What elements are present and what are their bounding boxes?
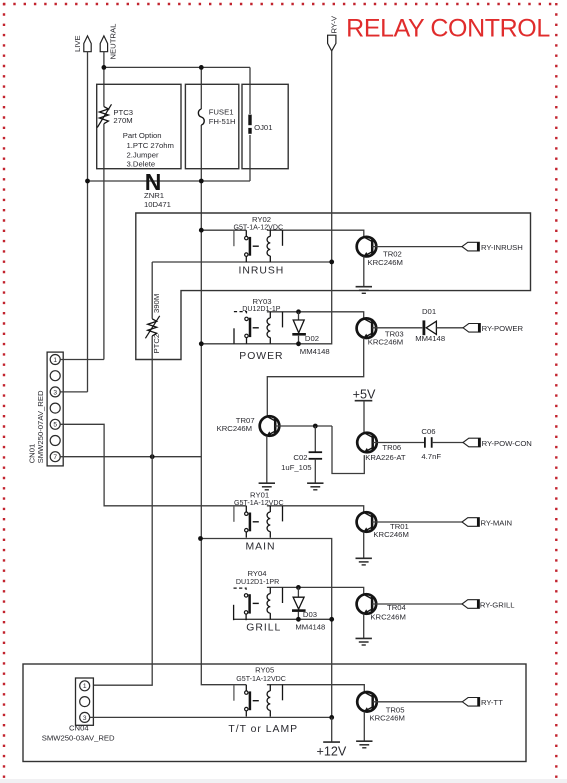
wire TR03 base to D01 [372, 327, 422, 329]
svg-text:NEUTRAL: NEUTRAL [109, 23, 118, 60]
transistor TR01 [357, 512, 409, 539]
wire TR06 base to C06 [373, 442, 425, 444]
relay RY05 contact [234, 685, 250, 717]
wire TR01 base to tag [372, 521, 462, 523]
wire RY01 coil top to TR01 [267, 506, 364, 513]
wire CN01 pin5 to MAIN [60, 424, 246, 506]
node TR07/C02 [313, 424, 318, 429]
svg-text:POWER: POWER [239, 351, 283, 362]
ground TR02 [356, 287, 372, 294]
svg-text:PTC2: PTC2 [152, 334, 161, 354]
node pin7/PTC2 [150, 454, 155, 459]
ground TR04 [356, 638, 372, 645]
wire PTC2 drop (INRUSH return to CN04 pin1) [90, 262, 153, 685]
RY-V input arrow [328, 15, 339, 51]
svg-text:RY04: RY04 [247, 569, 267, 578]
output tag RY-POWER [463, 324, 523, 334]
node RY04 coil bottom / +12V line [329, 617, 334, 622]
enclosure box INRUSH section [136, 213, 531, 360]
svg-text:SMW250-07AV_RED: SMW250-07AV_RED [36, 390, 45, 463]
svg-text:RY-V: RY-V [330, 15, 339, 33]
wire TR01 emitter [363, 532, 365, 559]
wire CN01 pin7 [60, 456, 201, 458]
relay RY04 contact [234, 588, 250, 620]
relay RY02 contact [234, 230, 250, 262]
wire RY05 coil top to TR05 [267, 685, 364, 692]
wire OJ01 drop [249, 67, 251, 181]
power rail +5V [353, 388, 376, 433]
NEUTRAL input arrow [100, 23, 117, 60]
output tag RY-TT [462, 698, 503, 708]
relay RY01 coil [253, 506, 283, 538]
capacitor C06 [421, 427, 441, 461]
svg-text:1: 1 [83, 683, 87, 690]
svg-text:KRC246M: KRC246M [217, 424, 252, 433]
svg-text:7: 7 [53, 454, 57, 461]
node RY02 coil bottom / RY-V [329, 260, 334, 265]
wire TR06 collector elbow [332, 426, 364, 474]
node RY03 bottom [199, 341, 204, 346]
svg-text:MM4148: MM4148 [300, 347, 330, 356]
svg-text:ZNR1: ZNR1 [144, 191, 164, 200]
transistor TR03 [357, 318, 404, 346]
svg-text:DU12D1-1P: DU12D1-1P [242, 305, 281, 313]
node RY01 bottom [198, 536, 203, 541]
capacitor C02 [281, 426, 322, 483]
svg-text:390M: 390M [152, 294, 161, 313]
svg-text:10D471: 10D471 [144, 200, 171, 209]
wire TR05 emitter [363, 712, 365, 742]
svg-text:KRC246M: KRC246M [370, 713, 405, 722]
relay RY03 contact [234, 312, 250, 344]
svg-text:2.Jumper: 2.Jumper [127, 150, 159, 159]
jumper box OJ01 [242, 84, 288, 168]
power rail +12V [317, 717, 347, 758]
diode D02 [292, 309, 329, 356]
svg-text:5: 5 [53, 422, 57, 429]
svg-text:CN04: CN04 [69, 723, 89, 732]
wire fuse drop [201, 67, 246, 684]
svg-text:T/T or LAMP: T/T or LAMP [228, 724, 298, 735]
svg-text:D03: D03 [303, 610, 317, 619]
svg-text:1: 1 [53, 357, 57, 364]
transistor TR05 [357, 692, 405, 722]
svg-text:3.Delete: 3.Delete [127, 160, 156, 169]
svg-text:DU12D1-1PR: DU12D1-1PR [236, 578, 279, 586]
wire CN01 pin1 [60, 359, 104, 361]
wire RY04 row bottom [234, 618, 332, 620]
wire LIVE vertical [87, 52, 89, 392]
svg-text:KRA226-AT: KRA226-AT [365, 453, 406, 462]
wire RY02 coil top to TR02 [267, 230, 364, 237]
label RY02 [233, 215, 284, 277]
wire TR04 base to tag [372, 603, 462, 605]
label RY01 [234, 490, 284, 552]
ground C02 [307, 483, 323, 490]
output tag RY-MAIN [462, 518, 512, 528]
svg-text:LIVE: LIVE [73, 35, 82, 52]
wire RY01 row bottom [201, 539, 332, 718]
wire TR02 base to tag [372, 246, 462, 248]
wire TR07 base node [275, 425, 332, 427]
svg-text:RY-TT: RY-TT [481, 698, 503, 707]
svg-text:KRC246M: KRC246M [370, 612, 405, 621]
junction dots top section [102, 65, 107, 70]
svg-text:FUSE1: FUSE1 [209, 108, 234, 117]
svg-text:KRC246M: KRC246M [373, 530, 408, 539]
ground TR07 [259, 483, 275, 490]
wire TR02 emitter [363, 256, 365, 286]
relay RY04 coil [253, 587, 283, 619]
ground TR05 [356, 741, 372, 748]
svg-text:G5T-1A-12VDC: G5T-1A-12VDC [236, 675, 286, 683]
svg-text:RY-GRILL: RY-GRILL [480, 600, 515, 609]
wire RY-V drop [299, 51, 332, 344]
connector CN04 [42, 678, 115, 742]
svg-text:RY-MAIN: RY-MAIN [481, 518, 513, 527]
wire D01 to tag [436, 327, 463, 329]
svg-text:RY-INRUSH: RY-INRUSH [481, 243, 523, 252]
node RY02 top [199, 228, 204, 233]
part option note [123, 131, 174, 168]
wire RY03 row bottom [201, 343, 298, 345]
svg-text:G5T-1A-12VDC: G5T-1A-12VDC [233, 223, 283, 231]
wire RY03 coil top to TR03 [267, 312, 364, 319]
svg-text:RY05: RY05 [255, 666, 274, 675]
relay RY02 coil [253, 230, 283, 262]
LIVE input arrow [73, 35, 91, 52]
svg-text:+5V: +5V [353, 388, 376, 402]
jumper OJ01 [250, 115, 272, 134]
svg-text:FH-51H: FH-51H [209, 117, 236, 126]
output tag RY-GRILL [462, 600, 515, 610]
svg-text:270M: 270M [113, 116, 132, 125]
transistor TR07 [217, 416, 280, 436]
svg-text:MM4148: MM4148 [415, 334, 445, 343]
svg-text:C06: C06 [421, 427, 435, 436]
svg-text:1.PTC 27ohm: 1.PTC 27ohm [127, 141, 174, 150]
svg-text:TR06: TR06 [382, 443, 401, 452]
svg-text:C02: C02 [293, 453, 307, 462]
svg-text:MM4148: MM4148 [295, 622, 325, 631]
wire CN04 pin3 / row bottom [90, 716, 332, 718]
wire ZNR horizontal [88, 180, 251, 182]
ground TR01 [356, 558, 372, 565]
wire C06 to tag [432, 442, 463, 444]
wire TR07 emitter [266, 436, 268, 483]
enclosure box T/T section [23, 664, 526, 762]
resistor PTC3 [97, 104, 133, 127]
wire RY02 contact top [201, 229, 246, 231]
svg-text:GRILL: GRILL [246, 623, 281, 634]
label RY03 [239, 297, 283, 362]
label RY05 [228, 666, 298, 735]
wire TR05 base to tag [373, 701, 463, 703]
node RY05 bottom / +12V [329, 715, 334, 720]
option box PTC3 [97, 84, 181, 168]
wire TR04 emitter [363, 614, 365, 639]
fuse box FUSE1 [185, 84, 238, 168]
transistor TR02 [357, 237, 403, 267]
diode D01 [415, 307, 445, 343]
svg-text:RY-POW-CON: RY-POW-CON [482, 439, 532, 448]
output tag RY-INRUSH [462, 242, 523, 252]
wire CN01 pin3 [60, 391, 87, 393]
output tag RY-POW-CON [463, 438, 532, 448]
label RY04 [236, 569, 281, 634]
resistor PTC2 [145, 294, 161, 354]
svg-text:1uF_105: 1uF_105 [281, 463, 311, 472]
svg-text:4.7nF: 4.7nF [421, 452, 441, 461]
diode D03 [292, 585, 325, 631]
svg-text:Part Option: Part Option [123, 131, 162, 140]
relay RY03 coil [253, 312, 283, 344]
transistor TR06 [357, 433, 406, 463]
svg-text:MAIN: MAIN [246, 542, 276, 553]
svg-text:D01: D01 [422, 307, 436, 316]
wire TR03 emitter to TR07 [267, 338, 363, 416]
transistor TR04 [357, 594, 407, 621]
fuse FUSE1 [198, 108, 235, 127]
svg-text:KRC246M: KRC246M [368, 338, 403, 347]
svg-text:KRC246M: KRC246M [368, 258, 403, 267]
svg-text:D02: D02 [305, 334, 319, 343]
svg-text:3: 3 [53, 389, 57, 396]
relay RY01 contact [234, 506, 250, 538]
svg-text:+12V: +12V [317, 745, 347, 759]
wire RY02 row bottom [152, 261, 332, 263]
svg-text:G5T-1A-12VDC: G5T-1A-12VDC [234, 499, 284, 507]
wire top feed horizontal [104, 66, 250, 68]
wire NEUTRAL vertical (through PTC3 down to CN01 pin1) [103, 52, 105, 360]
svg-text:OJ01: OJ01 [254, 123, 272, 132]
relay RY05 coil [253, 685, 283, 717]
svg-text:3: 3 [83, 715, 87, 722]
connector CN01 [28, 352, 64, 466]
svg-text:RELAY CONTROL: RELAY CONTROL [346, 15, 550, 43]
varistor ZNR1 [144, 169, 171, 209]
svg-text:INRUSH: INRUSH [238, 266, 284, 277]
svg-text:RY-POWER: RY-POWER [482, 324, 524, 333]
wire RY04 coil top to TR04 [267, 587, 364, 594]
svg-text:SMW250-03AV_RED: SMW250-03AV_RED [42, 733, 115, 742]
